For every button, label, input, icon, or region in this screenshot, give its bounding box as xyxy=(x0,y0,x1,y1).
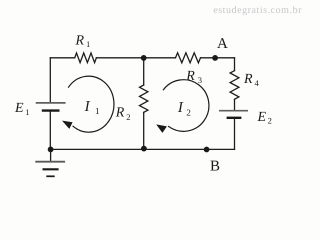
label E2 xyxy=(257,110,272,126)
resistor R2 xyxy=(140,85,148,112)
label R4 xyxy=(243,72,260,88)
svg-text:R: R xyxy=(115,106,125,121)
svg-text:I: I xyxy=(177,100,184,116)
svg-text:estudegratis.com.br: estudegratis.com.br xyxy=(213,5,302,16)
battery E2 long plate xyxy=(219,110,248,112)
wire top right (R3 to corner via node A) xyxy=(201,57,235,59)
node junction dot bottom-middle xyxy=(141,146,147,152)
wire middle branch upper xyxy=(143,58,145,85)
wire middle branch lower xyxy=(143,112,145,148)
svg-text:A: A xyxy=(217,36,228,52)
label R2 xyxy=(115,106,131,122)
wire right branch middle (R4 to E2) xyxy=(234,99,236,110)
battery E1 long plate xyxy=(36,102,66,104)
mesh current loop I2 arrow xyxy=(156,80,209,133)
mesh current loop I1 arrow xyxy=(62,76,114,132)
ground stub xyxy=(50,149,52,161)
battery E1 short plate xyxy=(42,109,60,111)
resistor R3 xyxy=(176,53,201,63)
wire left branch lower (E1 to bottom) xyxy=(49,111,51,149)
svg-text:2: 2 xyxy=(268,116,272,126)
wire bottom xyxy=(50,148,234,150)
svg-text:2: 2 xyxy=(186,108,191,118)
svg-text:R: R xyxy=(75,34,85,49)
wire right branch lower (E2 to bottom corner) xyxy=(234,119,236,150)
svg-text:1: 1 xyxy=(86,39,90,49)
svg-text:I: I xyxy=(84,99,91,115)
node junction dot bottom-left xyxy=(48,147,54,153)
wire top middle (R1 to R3) xyxy=(96,57,175,59)
label E1 xyxy=(14,101,29,117)
svg-text:R: R xyxy=(243,72,253,87)
node B junction dot xyxy=(204,147,210,153)
label I2 xyxy=(177,100,191,118)
label I1 xyxy=(84,99,100,116)
ground xyxy=(35,162,65,177)
battery E2 short plate xyxy=(227,117,242,119)
label R1 xyxy=(75,34,91,50)
wire left branch upper (corner to E1) xyxy=(49,58,51,102)
svg-text:1: 1 xyxy=(25,107,29,117)
svg-text:E: E xyxy=(14,101,24,116)
svg-text:E: E xyxy=(257,110,267,125)
node A junction dot xyxy=(212,55,218,61)
svg-text:B: B xyxy=(210,159,220,175)
resistor R4 xyxy=(230,71,239,100)
node junction dot top-middle xyxy=(141,55,147,61)
svg-text:3: 3 xyxy=(198,75,202,85)
svg-text:2: 2 xyxy=(126,112,130,122)
resistor R1 xyxy=(75,53,97,63)
svg-text:1: 1 xyxy=(95,106,100,116)
svg-text:R: R xyxy=(185,69,195,84)
wire top left (corner to R1) xyxy=(50,57,74,59)
label R3 xyxy=(185,69,202,85)
wire right branch upper (corner to R4) xyxy=(234,58,236,71)
